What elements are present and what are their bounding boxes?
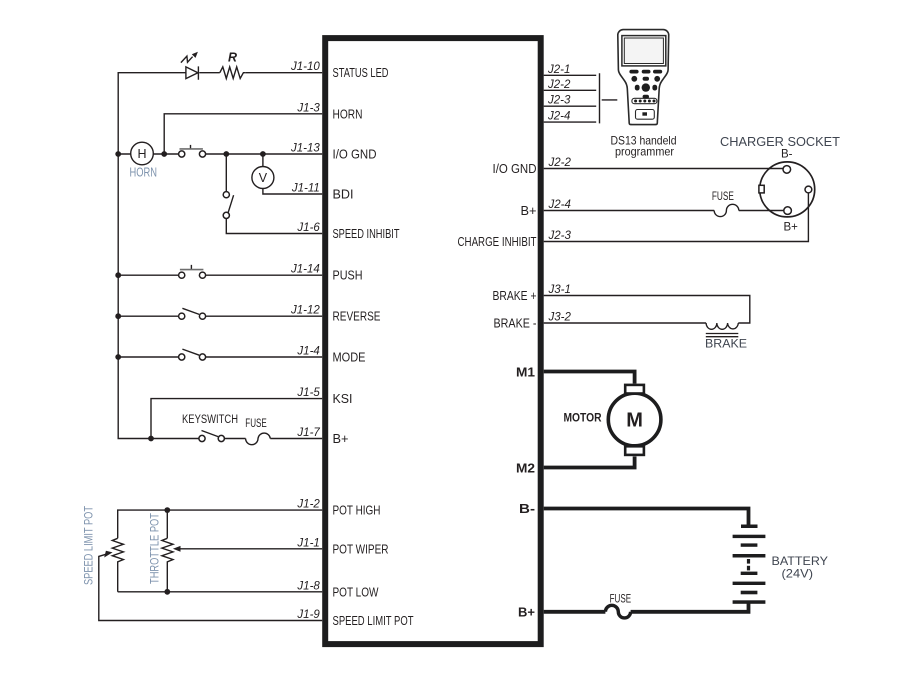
svg-text:KEYSWITCH: KEYSWITCH bbox=[182, 414, 238, 426]
svg-text:J2-4: J2-4 bbox=[548, 199, 571, 211]
svg-text:J2-4: J2-4 bbox=[547, 111, 570, 123]
svg-text:J1-5: J1-5 bbox=[296, 387, 320, 399]
svg-text:M: M bbox=[626, 410, 643, 432]
svg-text:B+: B+ bbox=[333, 431, 349, 446]
svg-text:J1-4: J1-4 bbox=[296, 346, 319, 358]
svg-text:STATUS LED: STATUS LED bbox=[333, 65, 389, 80]
svg-text:I/O GND: I/O GND bbox=[493, 161, 537, 176]
svg-text:BRAKE -: BRAKE - bbox=[494, 316, 537, 331]
svg-text:BRAKE +: BRAKE + bbox=[493, 288, 537, 303]
svg-text:THROTTLE POT: THROTTLE POT bbox=[148, 512, 162, 584]
svg-text:B+: B+ bbox=[521, 203, 537, 218]
svg-text:B+: B+ bbox=[518, 605, 535, 620]
svg-text:J1-1: J1-1 bbox=[296, 537, 319, 549]
svg-text:J1-12: J1-12 bbox=[290, 305, 320, 317]
svg-text:J3-2: J3-2 bbox=[548, 312, 572, 324]
svg-text:M1: M1 bbox=[516, 364, 535, 379]
svg-text:FUSE: FUSE bbox=[245, 418, 267, 430]
svg-text:J1-9: J1-9 bbox=[296, 609, 320, 621]
svg-text:V: V bbox=[259, 171, 268, 185]
svg-text:J1-6: J1-6 bbox=[296, 222, 320, 234]
svg-text:MOTOR: MOTOR bbox=[564, 411, 602, 425]
svg-text:B+: B+ bbox=[784, 222, 799, 234]
svg-text:J2-1: J2-1 bbox=[547, 64, 570, 76]
svg-text:J2-2: J2-2 bbox=[547, 79, 571, 91]
svg-text:programmer: programmer bbox=[615, 145, 674, 159]
svg-text:FUSE: FUSE bbox=[712, 191, 734, 203]
svg-text:J1-13: J1-13 bbox=[290, 143, 320, 155]
svg-text:J2-3: J2-3 bbox=[548, 230, 572, 242]
svg-text:J1-14: J1-14 bbox=[290, 264, 320, 276]
svg-text:R: R bbox=[228, 51, 237, 65]
svg-text:CHARGER SOCKET: CHARGER SOCKET bbox=[720, 135, 840, 149]
svg-text:PUSH: PUSH bbox=[333, 268, 363, 283]
svg-text:SPEED LIMIT POT: SPEED LIMIT POT bbox=[333, 613, 414, 628]
svg-text:HORN: HORN bbox=[130, 166, 158, 180]
svg-text:FUSE: FUSE bbox=[610, 594, 632, 606]
svg-text:J1-7: J1-7 bbox=[296, 427, 320, 439]
svg-text:J1-11: J1-11 bbox=[291, 183, 320, 195]
svg-text:POT LOW: POT LOW bbox=[333, 584, 380, 599]
svg-text:J2-3: J2-3 bbox=[547, 95, 571, 107]
svg-text:H: H bbox=[137, 147, 146, 161]
svg-text:POT HIGH: POT HIGH bbox=[333, 503, 381, 518]
svg-text:B-: B- bbox=[519, 501, 535, 516]
svg-text:J3-1: J3-1 bbox=[548, 284, 571, 296]
svg-text:J1-3: J1-3 bbox=[296, 102, 320, 114]
svg-text:SPEED INHIBIT: SPEED INHIBIT bbox=[333, 226, 400, 241]
svg-text:REVERSE: REVERSE bbox=[333, 309, 381, 324]
svg-text:J2-2: J2-2 bbox=[548, 157, 572, 169]
svg-text:J1-2: J1-2 bbox=[296, 499, 320, 511]
svg-text:J1-10: J1-10 bbox=[290, 61, 320, 73]
svg-text:M2: M2 bbox=[516, 460, 535, 475]
svg-text:B-: B- bbox=[781, 149, 793, 161]
svg-text:KSI: KSI bbox=[333, 391, 353, 406]
svg-text:(24V): (24V) bbox=[782, 567, 814, 581]
svg-text:CHARGE INHIBIT: CHARGE INHIBIT bbox=[458, 234, 537, 249]
svg-text:J1-8: J1-8 bbox=[296, 580, 320, 592]
svg-text:BDI: BDI bbox=[333, 187, 354, 202]
svg-text:HORN: HORN bbox=[333, 106, 363, 121]
svg-text:BRAKE: BRAKE bbox=[705, 337, 747, 351]
svg-text:I/O GND: I/O GND bbox=[333, 147, 377, 162]
svg-text:MODE: MODE bbox=[333, 350, 366, 365]
svg-text:POT WIPER: POT WIPER bbox=[333, 541, 389, 556]
svg-text:SPEED LIMIT POT: SPEED LIMIT POT bbox=[81, 505, 95, 585]
